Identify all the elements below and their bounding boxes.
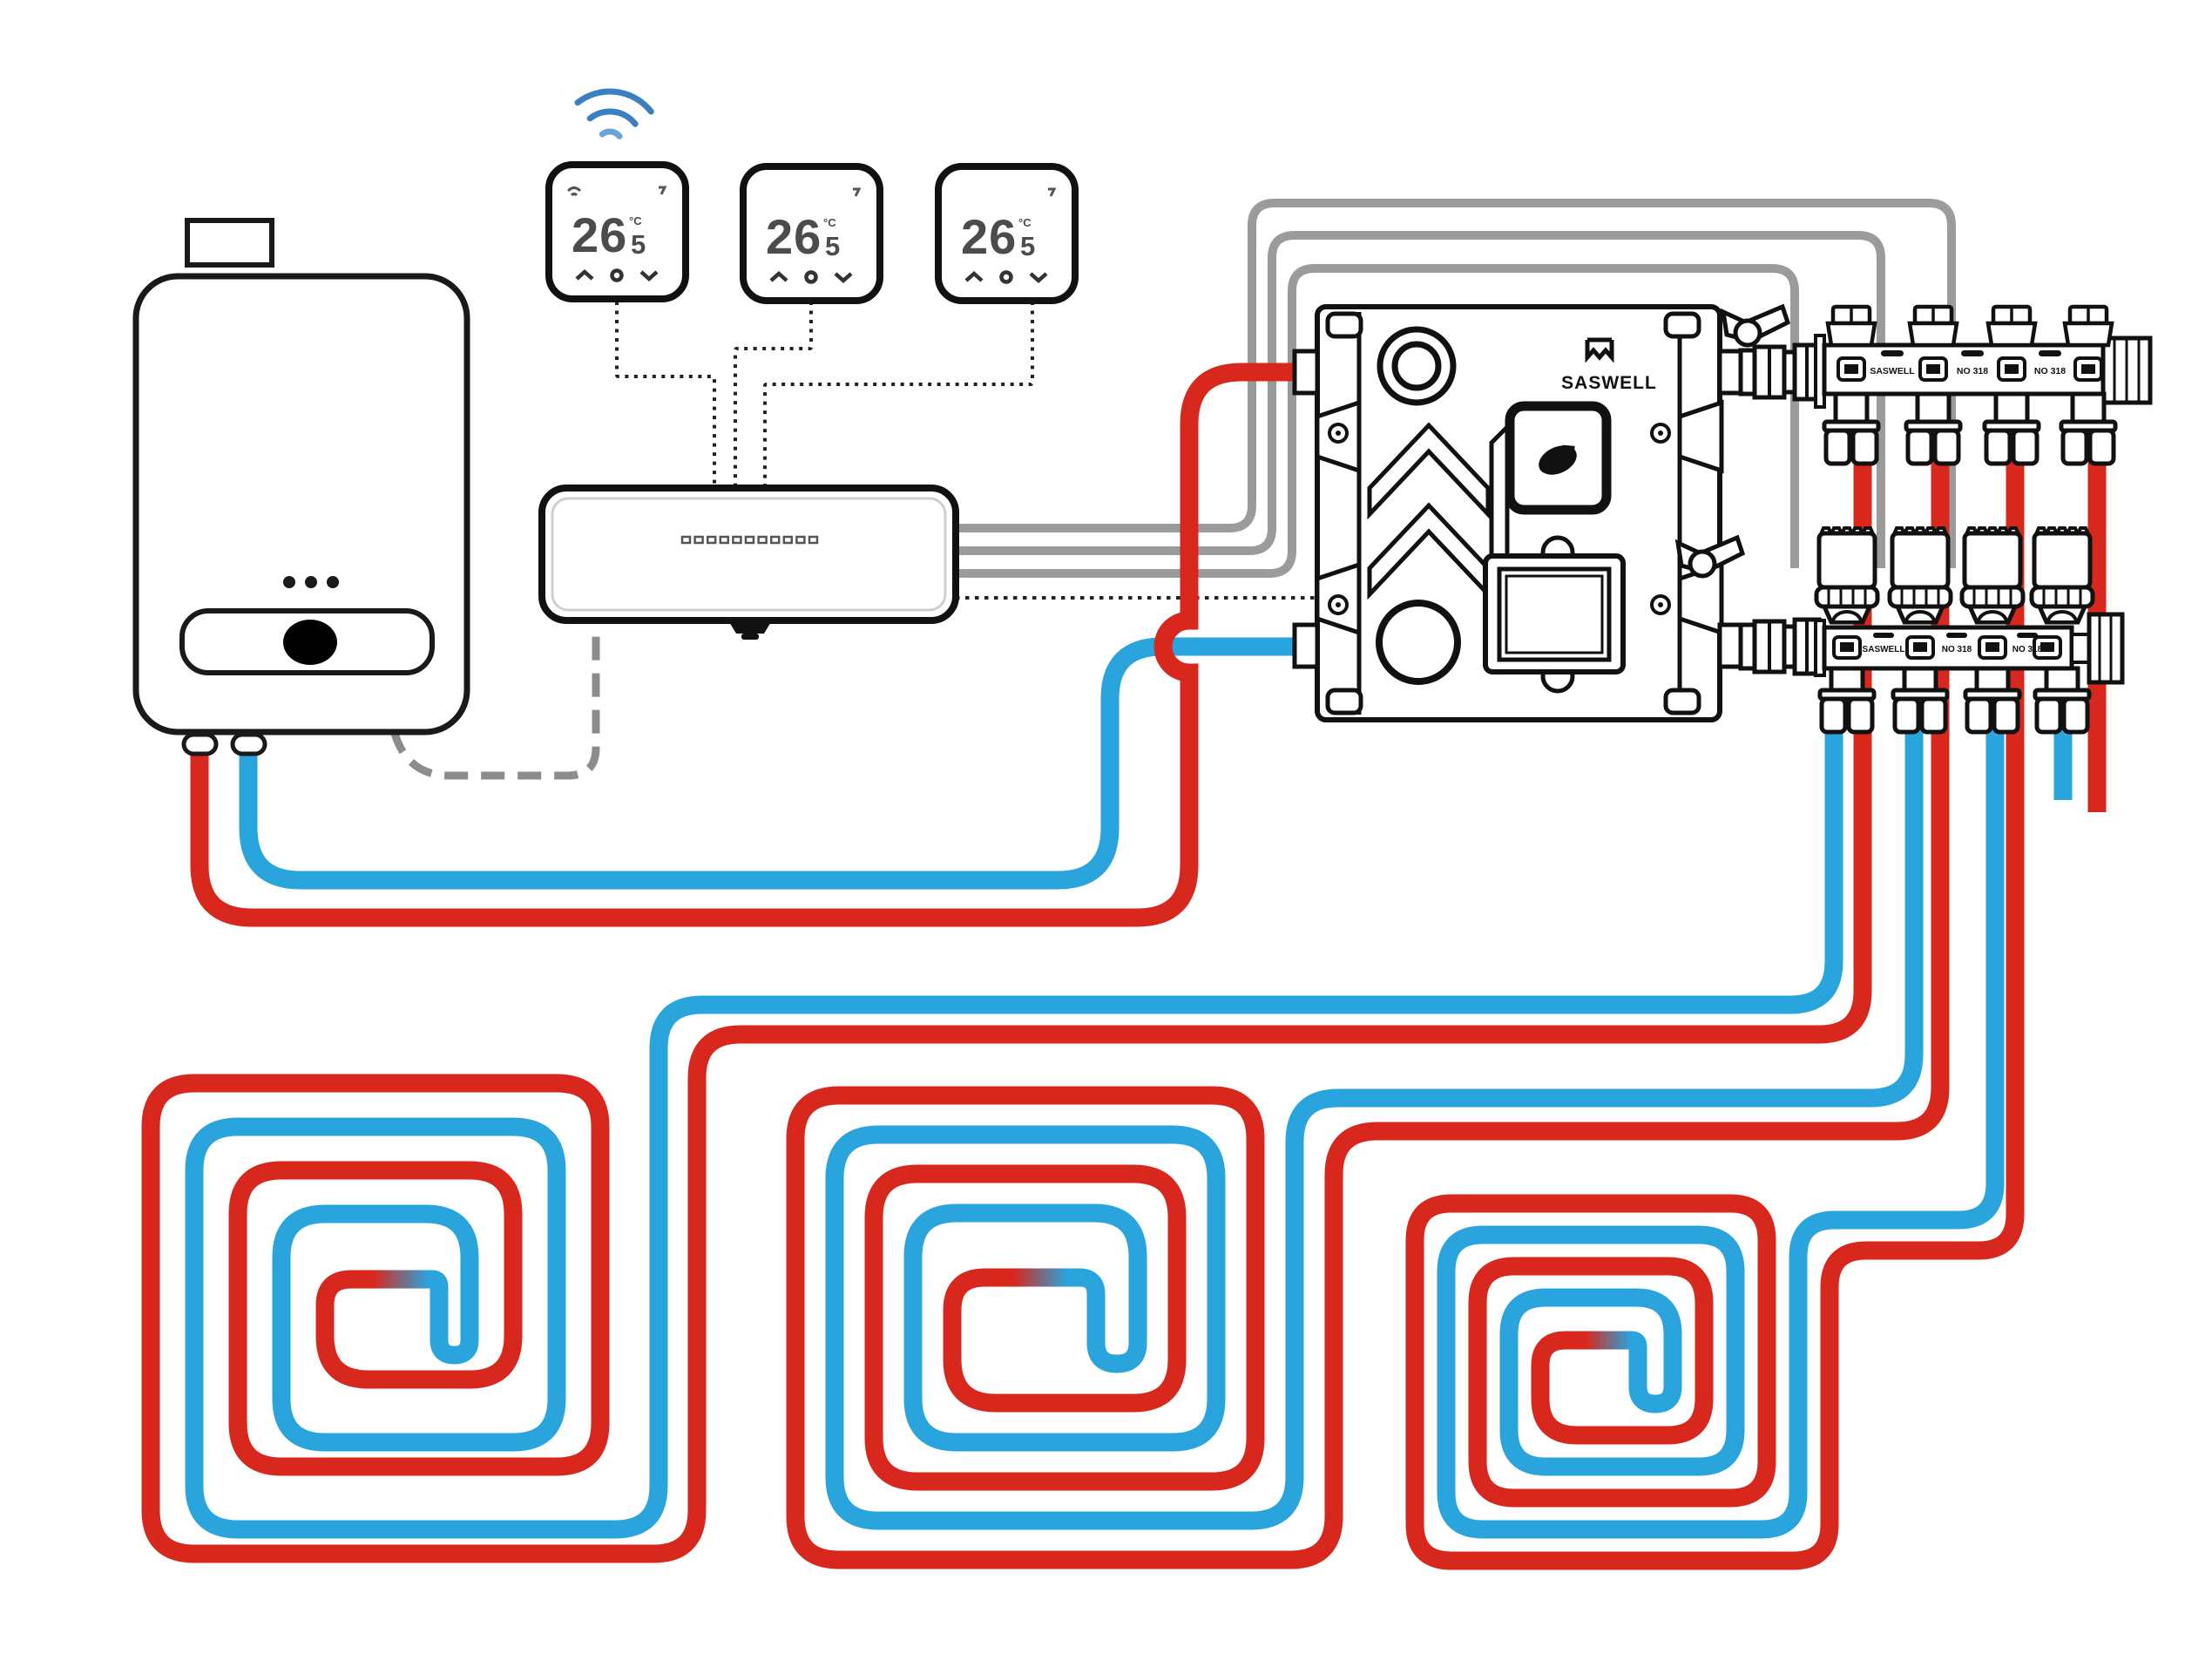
svg-text:5: 5 <box>1020 231 1035 261</box>
svg-text:NO 318: NO 318 <box>1957 366 1988 376</box>
svg-text:NO 318: NO 318 <box>2034 366 2066 376</box>
svg-text:5: 5 <box>631 229 646 260</box>
svg-text:SASWELL: SASWELL <box>1863 645 1905 654</box>
svg-text:°C: °C <box>823 216 836 229</box>
svg-text:°C: °C <box>629 214 642 227</box>
svg-text:NO 318: NO 318 <box>1942 645 1972 654</box>
svg-text:26: 26 <box>766 209 822 264</box>
svg-text:°C: °C <box>1018 216 1032 229</box>
svg-text:26: 26 <box>572 207 627 262</box>
svg-text:SASWELL: SASWELL <box>1561 373 1657 393</box>
svg-text:NO 318: NO 318 <box>2012 645 2043 654</box>
svg-text:26: 26 <box>961 209 1017 264</box>
svg-text:SASWELL: SASWELL <box>1870 366 1915 376</box>
svg-text:5: 5 <box>825 231 840 261</box>
